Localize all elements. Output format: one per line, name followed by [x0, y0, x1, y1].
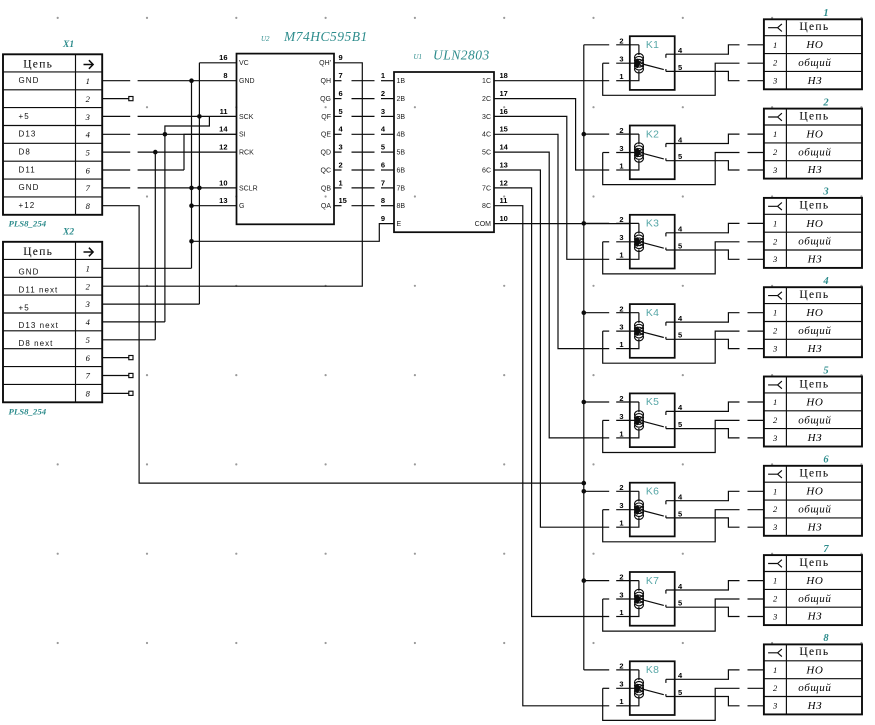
- relay K1 body: [630, 36, 675, 90]
- wire U2.QG to U1.2B: [334, 98, 342, 100]
- svg-text:НЗ: НЗ: [807, 700, 823, 712]
- svg-text:5C: 5C: [482, 150, 491, 157]
- connector X1 table: [3, 54, 102, 215]
- svg-text:X1: X1: [62, 40, 74, 50]
- wire K5 pin3 into armature: [603, 419, 610, 421]
- wire net GND: U1.E to GND vertical: [192, 224, 395, 242]
- U1 pin 7 7B (left): [381, 178, 406, 192]
- svg-text:2: 2: [86, 94, 91, 104]
- U1 pin 14 5C (right): [482, 143, 509, 157]
- svg-text:5: 5: [86, 148, 90, 158]
- svg-text:U1: U1: [414, 53, 423, 61]
- svg-text:3: 3: [619, 323, 623, 332]
- wire K7 pin4 (NO) to table row 1: [666, 581, 740, 590]
- svg-text:1: 1: [823, 8, 828, 19]
- output connector table 8: [764, 644, 862, 714]
- relay K8 body: [630, 661, 675, 715]
- wire K2 pin3 into armature: [603, 152, 610, 154]
- svg-text:3: 3: [619, 501, 623, 510]
- svg-text:K1: K1: [646, 40, 659, 51]
- svg-text:QF: QF: [321, 114, 331, 121]
- relay K3 pin number labels: [619, 215, 683, 260]
- relay K5 pin number labels: [619, 394, 683, 439]
- svg-text:D11: D11: [19, 165, 36, 174]
- U2 pin 16 VC (left): [219, 53, 249, 67]
- svg-text:QE: QE: [321, 132, 331, 139]
- svg-text:M74HC595B1: M74HC595B1: [283, 29, 368, 44]
- relay K8 armature: [643, 689, 664, 695]
- svg-text:15: 15: [500, 125, 508, 134]
- U2 pin 4 QE (right): [321, 125, 344, 139]
- svg-text:2: 2: [381, 89, 385, 98]
- svg-text:НО: НО: [805, 486, 823, 498]
- relay K7 pin number labels: [619, 572, 683, 617]
- relay K2 pin number labels: [619, 126, 683, 171]
- relay K5 body: [630, 393, 675, 447]
- wire K2 pin3 (common) around box to table row 2: [603, 153, 740, 185]
- svg-text:5: 5: [678, 509, 682, 518]
- wire K5 pin3 (common) around box to table row 2: [603, 420, 740, 452]
- svg-text:общий: общий: [798, 57, 831, 69]
- wire U2.QC to U1.6B: [334, 169, 342, 171]
- relay K6 body: [630, 483, 675, 537]
- svg-text:общий: общий: [798, 414, 831, 426]
- svg-text:3: 3: [772, 701, 777, 711]
- relay K2 NO contact tick pin4: [665, 144, 667, 148]
- wire K4 pin4 (NO) to table row 1: [666, 313, 740, 322]
- svg-text:1: 1: [773, 576, 777, 586]
- svg-text:2: 2: [86, 281, 91, 291]
- wire U1.1C to K1.1: [494, 80, 609, 82]
- svg-text:G: G: [239, 203, 244, 210]
- output connector table 6: [764, 466, 862, 536]
- svg-text:2: 2: [619, 483, 623, 492]
- U2 pin 15 QA (right): [321, 196, 347, 210]
- svg-text:11: 11: [500, 196, 508, 205]
- junction +5 vertical at SCLR row: [197, 186, 202, 191]
- no-connect stub X1.2: [102, 97, 133, 101]
- svg-text:Цепь: Цепь: [799, 378, 829, 390]
- svg-text:D13: D13: [19, 130, 37, 139]
- svg-text:13: 13: [500, 160, 508, 169]
- svg-text:4: 4: [86, 130, 91, 140]
- output connector table 4: [764, 287, 862, 357]
- svg-text:8: 8: [823, 633, 829, 644]
- wire K2 pin1 coil return inside: [630, 160, 639, 170]
- wire +12 bus to K5 pin2 / coil drive: [584, 401, 609, 403]
- output connector table 5: [764, 377, 862, 447]
- svg-text:4: 4: [381, 125, 386, 134]
- svg-text:14: 14: [500, 143, 509, 152]
- svg-text:QH': QH': [319, 60, 331, 67]
- wire K4 pin1 coil return inside: [630, 339, 639, 349]
- svg-text:1: 1: [773, 129, 777, 139]
- svg-text:+12: +12: [19, 201, 36, 210]
- junction +12 feed: [582, 481, 587, 486]
- svg-text:1: 1: [619, 72, 623, 81]
- U2 pin 5 QF (right): [321, 107, 342, 121]
- U2 pin 2 QC (right): [321, 160, 343, 174]
- svg-text:6B: 6B: [397, 167, 406, 174]
- junction +12 bus at K3.2: [582, 221, 587, 226]
- wire K8 pin3 into armature: [603, 687, 610, 689]
- wire net D8 next: X2.5 row: [102, 339, 155, 341]
- svg-text:15: 15: [339, 196, 347, 205]
- svg-text:18: 18: [500, 71, 508, 80]
- wire U1.6C to K6.1: [494, 170, 609, 527]
- relay K8 NO contact tick pin4: [665, 679, 667, 683]
- svg-text:2: 2: [773, 415, 778, 425]
- svg-text:D13 next: D13 next: [19, 321, 59, 330]
- wire K3 pin1 coil return inside: [630, 249, 639, 259]
- wire net D11 next: U2.QH' to X2.2: [102, 63, 362, 286]
- U2 pin 3 QD (right): [321, 143, 343, 157]
- wire U2.QD to U1.5B: [334, 151, 342, 153]
- svg-text:7: 7: [823, 544, 829, 555]
- svg-text:НО: НО: [805, 396, 823, 408]
- wire U1.2C to K2.1: [494, 99, 609, 170]
- wire K1 pin3 (common) around box to table row 2: [603, 63, 740, 95]
- wire net D13 next: X2.4 row: [102, 321, 165, 323]
- wire K8 pin5 (NC) to table row 3: [666, 697, 740, 706]
- svg-text:НО: НО: [805, 218, 823, 230]
- junction GND at E branch: [189, 239, 194, 244]
- svg-text:1: 1: [773, 486, 777, 496]
- svg-text:3: 3: [772, 254, 777, 264]
- svg-text:НЗ: НЗ: [807, 611, 823, 623]
- U2 pin 9 QH' (right): [319, 53, 343, 67]
- wire net GND: X2.1 row: [102, 267, 191, 269]
- U1 pin 17 2C (right): [482, 89, 508, 103]
- svg-text:1C: 1C: [482, 78, 491, 85]
- svg-text:10: 10: [219, 178, 227, 187]
- svg-text:1: 1: [773, 397, 777, 407]
- svg-text:НО: НО: [805, 307, 823, 319]
- wire K5 pin4 (NO) to table row 1: [666, 402, 740, 411]
- relay K6 pin number labels: [619, 483, 683, 527]
- relay K3 body: [630, 215, 675, 269]
- wire K7 pin3 (common) around box to table row 2: [603, 599, 740, 631]
- junction GND at X1.1 row: [189, 78, 194, 83]
- wire net D13 jog to U2.SCK: [165, 116, 210, 134]
- svg-text:2B: 2B: [397, 96, 406, 103]
- no-connect stub X2.6: [102, 356, 133, 360]
- no-connect stub X2.7: [102, 373, 133, 377]
- wire K3 pin5 (NC) to table row 3: [666, 250, 740, 259]
- svg-text:7C: 7C: [482, 185, 491, 192]
- wire net D8: X1.5 to U2.RCK: [102, 151, 130, 153]
- svg-text:6C: 6C: [482, 167, 491, 174]
- svg-text:5: 5: [381, 143, 385, 152]
- wire K1 pin3 into armature: [603, 62, 610, 64]
- svg-text:PLS8_254: PLS8_254: [9, 406, 47, 416]
- junction +12 bus at K7.2: [582, 578, 587, 583]
- relay K8 coil: [635, 679, 644, 698]
- svg-text:4: 4: [822, 276, 828, 287]
- svg-text:2: 2: [773, 58, 778, 68]
- svg-text:2: 2: [619, 662, 623, 671]
- svg-text:НЗ: НЗ: [807, 343, 823, 355]
- junction GND at X1.7/SCLR row: [189, 186, 194, 191]
- svg-text:3: 3: [772, 522, 777, 532]
- relay K4 NO contact tick pin4: [665, 322, 667, 326]
- svg-text:1: 1: [773, 308, 777, 318]
- svg-text:9: 9: [339, 53, 343, 62]
- svg-text:7: 7: [339, 71, 343, 80]
- wire net D13: X1.4 row to junction: [102, 133, 130, 135]
- wire +12 bus to K7 pin2 / coil drive: [584, 580, 609, 582]
- U1 pin 9 E (left): [381, 214, 402, 228]
- relay K3 NC contact tick pin5: [665, 248, 667, 250]
- relay K2 armature: [643, 153, 664, 159]
- svg-text:3: 3: [772, 433, 777, 443]
- svg-text:X2: X2: [62, 227, 74, 237]
- svg-text:GND: GND: [19, 76, 40, 85]
- svg-text:11: 11: [220, 107, 228, 116]
- svg-text:4C: 4C: [482, 132, 491, 139]
- wire U2.VC lead: [199, 62, 236, 64]
- wire U1.7C to K7.1: [494, 188, 609, 617]
- svg-text:3: 3: [772, 165, 777, 175]
- svg-text:5: 5: [339, 107, 343, 116]
- svg-text:1: 1: [619, 608, 623, 617]
- svg-text:2: 2: [773, 236, 778, 246]
- svg-text:2: 2: [773, 326, 778, 336]
- wire U2.G lead: [192, 205, 237, 207]
- svg-text:U2: U2: [261, 35, 270, 43]
- svg-text:6: 6: [86, 165, 91, 175]
- svg-text:2C: 2C: [482, 96, 491, 103]
- svg-text:2: 2: [619, 394, 623, 403]
- U2 pin 8 GND (left): [223, 71, 254, 85]
- wire net +12: U1.COM row to K3.2: [494, 223, 630, 225]
- svg-text:Цепь: Цепь: [23, 246, 53, 258]
- wire K3 pin4 (NO) to table row 1: [666, 223, 740, 232]
- svg-text:общий: общий: [798, 325, 831, 337]
- relay K8 NC contact tick pin5: [665, 694, 667, 696]
- wire K5 pin5 (NC) to table row 3: [666, 429, 740, 438]
- output connector table 2: [764, 109, 862, 179]
- svg-text:QA: QA: [321, 203, 331, 210]
- wire K4 pin3 into armature: [603, 330, 610, 332]
- output connector table 3: [764, 198, 862, 268]
- svg-text:QH: QH: [321, 78, 332, 85]
- wire net GND vertical bus: [191, 81, 193, 269]
- svg-text:3: 3: [619, 144, 623, 153]
- svg-text:D8 next: D8 next: [19, 339, 54, 348]
- junction +5 at X1.3 row: [197, 114, 202, 119]
- svg-text:НЗ: НЗ: [807, 521, 823, 533]
- svg-text:3: 3: [619, 590, 623, 599]
- U1 pin 6 6B (left): [381, 160, 406, 174]
- svg-text:K3: K3: [646, 219, 659, 230]
- svg-text:общий: общий: [798, 682, 831, 694]
- svg-text:16: 16: [219, 53, 227, 62]
- wire U1.4C to K4.1: [494, 134, 609, 348]
- svg-text:3B: 3B: [397, 114, 406, 121]
- U1 pin 10 COM (right): [475, 214, 508, 228]
- svg-text:1: 1: [619, 429, 623, 438]
- wire K1 pin4 (NO) to table row 1: [666, 45, 740, 54]
- relay K3 armature: [643, 243, 664, 249]
- svg-text:PLS8_254: PLS8_254: [9, 218, 47, 228]
- svg-text:7: 7: [86, 183, 91, 193]
- relay K7 armature: [643, 600, 664, 606]
- svg-text:5: 5: [678, 331, 682, 340]
- wire K7 pin1 coil return inside: [630, 607, 639, 617]
- wire +12 bus to K6 pin2 / coil drive: [584, 490, 609, 492]
- relay K7 coil: [635, 589, 644, 608]
- svg-text:2: 2: [619, 305, 623, 314]
- svg-text:GND: GND: [19, 183, 40, 192]
- U1 pin 2 2B (left): [381, 89, 406, 103]
- op-amp substitute: shift register U2 M74HC595B1 body: [237, 54, 335, 225]
- svg-text:2: 2: [773, 147, 778, 157]
- wire U2.QB to U1.7B: [334, 187, 342, 189]
- U1 pin 4 4B (left): [381, 125, 406, 139]
- relay K7 body: [630, 572, 675, 626]
- svg-text:1: 1: [773, 665, 777, 675]
- svg-text:4B: 4B: [397, 132, 406, 139]
- svg-text:QG: QG: [320, 96, 331, 103]
- relay K3 NO contact tick pin4: [665, 233, 667, 237]
- svg-text:1: 1: [86, 264, 90, 274]
- svg-text:8: 8: [381, 196, 385, 205]
- relay K7 NO contact tick pin4: [665, 590, 667, 594]
- svg-text:8: 8: [223, 71, 227, 80]
- svg-text:НЗ: НЗ: [807, 254, 823, 266]
- wire +12 bus to K2 pin2 / coil drive: [584, 133, 609, 135]
- svg-text:12: 12: [219, 143, 227, 152]
- svg-text:SCLR: SCLR: [239, 185, 258, 192]
- svg-text:K2: K2: [646, 129, 659, 140]
- U2 pin 14 SI (left): [219, 125, 246, 139]
- relay K3 coil: [635, 232, 644, 251]
- svg-text:3: 3: [772, 343, 777, 353]
- U1 pin 5 5B (left): [381, 143, 406, 157]
- wire +12 bus to K3 pin2 / coil drive: [584, 222, 609, 224]
- svg-text:3: 3: [85, 112, 90, 122]
- junction +12 bus at K2.2: [582, 132, 587, 137]
- no-connect stub X2.8: [102, 391, 133, 395]
- svg-text:5B: 5B: [397, 150, 406, 157]
- U1 pin 16 3C (right): [482, 107, 508, 121]
- wire +12 bus to K8 pin2 / coil drive: [584, 669, 609, 671]
- grid dots (decorative): [57, 17, 863, 644]
- svg-text:1: 1: [619, 161, 623, 170]
- relay K4 coil: [635, 321, 644, 340]
- wire U1.3C to K3.1: [494, 116, 609, 259]
- wire K2 pin5 (NC) to table row 3: [666, 161, 740, 170]
- relay K5 armature: [643, 421, 664, 427]
- svg-text:QB: QB: [321, 185, 331, 192]
- junction D13 branch: [163, 132, 168, 137]
- relay K7 NC contact tick pin5: [665, 605, 667, 607]
- svg-text:1: 1: [339, 178, 343, 187]
- svg-text:QC: QC: [321, 167, 332, 174]
- svg-text:1: 1: [619, 519, 623, 528]
- U1 pin 3 3B (left): [381, 107, 406, 121]
- wire +12 bus to K1 pin2 / coil drive: [584, 44, 609, 46]
- svg-text:общий: общий: [798, 593, 831, 605]
- svg-text:ULN2803: ULN2803: [433, 48, 490, 63]
- U2 pin 1 QB (right): [321, 178, 343, 192]
- junction +12 bus at K6.2: [582, 489, 587, 494]
- relay K8 pin number labels: [619, 662, 683, 707]
- svg-text:Цепь: Цепь: [23, 58, 53, 70]
- junction +12 bus at K5.2: [582, 400, 587, 405]
- svg-text:общий: общий: [798, 504, 831, 516]
- relay K4 armature: [643, 332, 664, 338]
- U1 pin 12 7C (right): [482, 178, 508, 192]
- svg-text:K6: K6: [646, 487, 659, 498]
- wire K7 pin5 (NC) to table row 3: [666, 607, 740, 616]
- svg-text:НО: НО: [805, 39, 823, 51]
- svg-text:COM: COM: [475, 221, 492, 228]
- svg-text:3: 3: [85, 299, 90, 309]
- wire net +5: X2.3 row: [102, 303, 199, 305]
- svg-text:GND: GND: [239, 78, 255, 85]
- U2 pin 13 G (left): [219, 196, 244, 210]
- wire net D11: X1.6 to U2.SI: [102, 169, 130, 171]
- svg-text:16: 16: [500, 107, 508, 116]
- U2 pin 10 SCLR (left): [219, 178, 258, 192]
- wire +12 bus to K4 pin2 / coil drive: [584, 312, 609, 314]
- svg-text:6: 6: [339, 89, 343, 98]
- svg-text:K7: K7: [646, 576, 659, 587]
- transistor-array U1 ULN2803 body: [394, 72, 494, 232]
- svg-text:+5: +5: [19, 303, 30, 312]
- svg-text:5: 5: [678, 241, 682, 250]
- U2 pin 7 QH (right): [321, 71, 343, 85]
- svg-text:K8: K8: [646, 665, 659, 676]
- svg-text:8C: 8C: [482, 203, 491, 210]
- svg-text:D11 next: D11 next: [19, 286, 59, 295]
- svg-text:2: 2: [773, 594, 778, 604]
- svg-text:5: 5: [678, 152, 682, 161]
- relay K6 armature: [643, 511, 664, 517]
- svg-text:Цепь: Цепь: [799, 557, 829, 569]
- svg-text:Цепь: Цепь: [799, 21, 829, 33]
- wire K5 pin1 coil return inside: [630, 428, 639, 438]
- svg-text:5: 5: [86, 335, 90, 345]
- svg-text:GND: GND: [19, 268, 40, 277]
- svg-text:1: 1: [619, 251, 623, 260]
- svg-text:7: 7: [381, 178, 385, 187]
- svg-text:12: 12: [500, 178, 508, 187]
- relay K6 NC contact tick pin5: [665, 516, 667, 518]
- svg-text:3: 3: [381, 107, 385, 116]
- svg-text:SI: SI: [239, 132, 246, 139]
- wire K6 pin3 into armature: [603, 509, 610, 511]
- wire K6 pin5 (NC) to table row 3: [666, 518, 740, 527]
- svg-text:4: 4: [86, 317, 91, 327]
- svg-text:3: 3: [619, 680, 623, 689]
- svg-text:2: 2: [773, 683, 778, 693]
- svg-text:9: 9: [381, 214, 385, 223]
- wire net +5: X1.3 to U2.SCK row: [102, 115, 130, 117]
- svg-text:общий: общий: [798, 236, 831, 248]
- U2 pin 11 SCK (left): [220, 107, 254, 121]
- svg-text:НЗ: НЗ: [807, 432, 823, 444]
- wire K8 pin1 coil return inside: [630, 696, 639, 706]
- svg-text:2: 2: [619, 37, 623, 46]
- wire net +12 bus vertical: [583, 45, 585, 670]
- svg-text:+5: +5: [19, 112, 30, 121]
- wire U2.QE to U1.4B: [334, 133, 342, 135]
- svg-text:2: 2: [619, 572, 623, 581]
- svg-text:K4: K4: [646, 308, 659, 319]
